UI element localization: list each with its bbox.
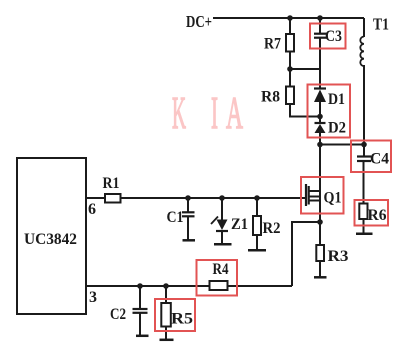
zener Z1 <box>211 217 228 232</box>
wire transformer bottom <box>363 65 365 145</box>
wire C4 to R6 <box>363 161 365 204</box>
svg-text:DC+: DC+ <box>186 12 212 31</box>
label Z1 <box>231 216 248 233</box>
transistor Q1 <box>306 184 320 206</box>
ground below C1 <box>183 239 196 242</box>
wire D2 bottom <box>319 133 321 145</box>
pin 3 label <box>89 289 97 306</box>
wire source to sense loop <box>292 222 320 286</box>
wire C3 top <box>319 18 321 34</box>
svg-text:UC3842: UC3842 <box>24 231 77 248</box>
ground below C2 <box>136 335 149 338</box>
highlight box C3 <box>310 24 346 49</box>
wire R6 bottom <box>363 219 365 234</box>
wire Z1 bottom <box>221 231 223 244</box>
node R7-R8 junction <box>287 66 293 72</box>
resistor R1 <box>105 194 121 203</box>
label R6 <box>368 207 387 224</box>
svg-text:A: A <box>226 87 243 138</box>
transformer T1 winding <box>360 37 364 67</box>
wire pin6 to R1 <box>86 197 105 199</box>
wire R8 bottom <box>290 104 320 117</box>
wire R8 top <box>289 69 291 87</box>
capacitor C2 <box>133 309 148 313</box>
label R1 <box>103 175 120 192</box>
svg-text:3: 3 <box>89 289 97 306</box>
svg-text:R5: R5 <box>171 311 193 328</box>
resistor R3 <box>316 245 324 261</box>
ground below R3 <box>314 276 327 279</box>
node C1 junction <box>185 195 191 201</box>
svg-text:R3: R3 <box>328 248 349 265</box>
resistor R8 <box>286 87 294 105</box>
svg-text:R8: R8 <box>261 89 280 106</box>
svg-text:R6: R6 <box>368 207 387 224</box>
capacitor C3 <box>314 34 327 38</box>
highlight box R6 <box>355 200 389 226</box>
label Q1 <box>324 190 342 207</box>
highlight box Q1 <box>301 177 344 214</box>
wire C1 bottom <box>187 217 189 241</box>
ground below R2 <box>248 249 266 252</box>
wire C2 bottom <box>139 313 141 336</box>
node Z1 junction <box>219 195 225 201</box>
node R5 junction <box>163 283 169 289</box>
wire R7 top <box>289 18 291 34</box>
node rail-R7 junction <box>287 15 293 21</box>
svg-text:C3: C3 <box>325 28 342 45</box>
label DC+ <box>186 12 212 31</box>
wire R5 top <box>165 286 167 303</box>
label R8 <box>261 89 280 106</box>
svg-text:R4: R4 <box>213 261 229 278</box>
label D2 <box>328 120 346 137</box>
wire R4 to sense loop <box>228 285 293 287</box>
svg-text:6: 6 <box>88 201 96 218</box>
svg-text:R1: R1 <box>103 175 120 192</box>
wire R2 top <box>256 198 258 216</box>
wire C4 top <box>363 145 365 157</box>
node D2-C4 junction <box>317 142 323 148</box>
wire R3 bottom <box>319 261 321 277</box>
wire R7 bottom <box>289 52 291 70</box>
highlight box R5 <box>155 299 195 331</box>
label C1 <box>167 209 184 226</box>
highlight box C4 <box>351 141 391 173</box>
wire R1 to Q1 gate <box>121 197 307 199</box>
wire Q1 drain <box>319 145 321 223</box>
wire R3 top <box>319 222 321 245</box>
wire R2 bottom <box>256 235 258 250</box>
wire R5 bottom <box>165 327 167 340</box>
label R4 <box>213 261 229 278</box>
label C3 <box>325 28 342 45</box>
node C2 junction <box>137 283 143 289</box>
ground below Z1 <box>214 243 232 246</box>
svg-text:D1: D1 <box>328 91 345 108</box>
IC UC3842 <box>17 158 86 314</box>
label C2 <box>110 306 126 323</box>
wire pin3 to R4 <box>86 285 210 287</box>
ground below R6 <box>356 233 373 236</box>
resistor R5 <box>161 303 171 327</box>
pin 6 label <box>88 201 96 218</box>
svg-text:Z1: Z1 <box>231 216 248 233</box>
svg-text:R2: R2 <box>263 220 281 237</box>
wire C1 top <box>187 198 189 212</box>
node C4 junction <box>361 142 367 148</box>
svg-text:I: I <box>211 87 218 138</box>
label D1 <box>328 91 345 108</box>
resistor R2 <box>253 216 261 235</box>
highlight box D1 D2 <box>308 85 351 138</box>
svg-text:T1: T1 <box>373 15 389 34</box>
label R2 <box>263 220 281 237</box>
diode D1 <box>314 89 326 103</box>
wire D2 node to C4 node <box>320 144 364 146</box>
capacitor C4 <box>357 157 371 162</box>
svg-text:C4: C4 <box>370 151 389 168</box>
resistor R7 <box>286 34 294 52</box>
svg-text:Q1: Q1 <box>324 190 342 207</box>
wire C3 bottom to D1 <box>319 38 321 89</box>
label R5 <box>171 311 193 328</box>
label UC3842 <box>24 231 77 248</box>
wire transformer top <box>363 18 365 37</box>
wire R7 node to C3 branch <box>290 68 320 70</box>
watermark KIA <box>172 87 243 138</box>
wire C2 top <box>139 286 141 309</box>
resistor R4 <box>210 281 228 290</box>
node D1-D2 junction <box>317 114 323 120</box>
ground below R5 <box>160 339 174 342</box>
wire DC+ rail <box>213 17 364 19</box>
highlight box R4 <box>197 260 238 296</box>
svg-text:C1: C1 <box>167 209 184 226</box>
label C4 <box>370 151 389 168</box>
label R3 <box>328 248 349 265</box>
svg-text:K: K <box>172 87 186 138</box>
resistor R6 <box>359 204 367 220</box>
svg-text:D2: D2 <box>328 120 346 137</box>
label T1 <box>373 15 389 34</box>
svg-text:C2: C2 <box>110 306 126 323</box>
node rail-C3 junction <box>317 15 323 21</box>
capacitor C1 <box>182 212 195 216</box>
node Q1 source junction <box>317 219 323 225</box>
svg-text:R7: R7 <box>264 36 281 53</box>
diode D2 <box>315 123 326 133</box>
node R2 junction <box>254 195 260 201</box>
wire Z1 top <box>221 198 223 220</box>
wire D1 to D2 <box>319 102 321 123</box>
label R7 <box>264 36 281 53</box>
